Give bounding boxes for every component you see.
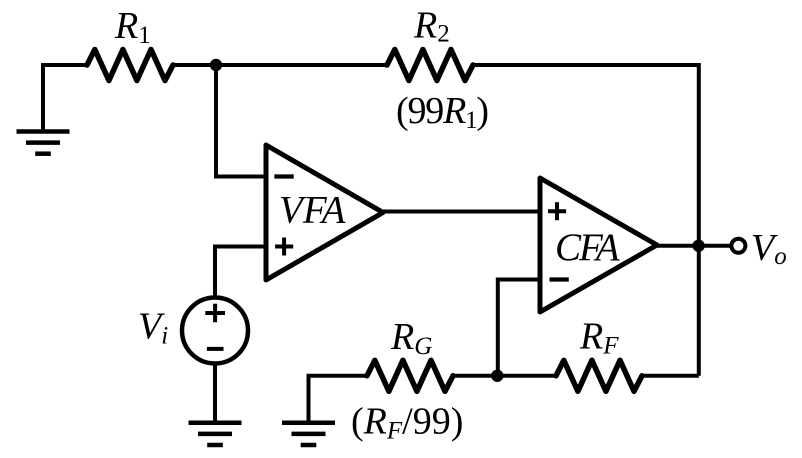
svg-text:Vi: Vi xyxy=(138,306,168,350)
op-amp U2 CFA triangle xyxy=(540,178,657,312)
wire top rail R1 to R2 xyxy=(173,63,387,67)
wire node A down to VFA inverting input xyxy=(216,65,266,177)
plus sign CFA non-inverting input xyxy=(548,202,566,220)
svg-text:(99R1): (99R1) xyxy=(396,90,488,134)
wire VFA output to CFA non-inverting input xyxy=(383,210,540,214)
resistor RF xyxy=(556,360,642,391)
ground GND2 under Vi xyxy=(189,423,242,445)
wire bottom-left to GND3 and to RG xyxy=(309,376,368,423)
wire R2 to right rail and right vertical rail xyxy=(473,65,699,376)
plus sign inside Vi xyxy=(205,304,225,323)
svg-text:RG: RG xyxy=(390,316,432,360)
wire VFA non-inverting input to Vi xyxy=(215,247,266,298)
svg-text:R2: R2 xyxy=(413,5,450,48)
ground GND1 top-left xyxy=(17,132,70,154)
source Vi circle xyxy=(182,298,248,364)
ground GND3 xyxy=(282,423,335,445)
minus sign VFA inverting input xyxy=(274,174,293,178)
node C output junction dot xyxy=(692,240,704,252)
wire RF to right rail xyxy=(642,374,699,378)
node B junction dot xyxy=(491,370,503,382)
wire RG to node B to RF xyxy=(453,374,556,378)
svg-text:RF: RF xyxy=(579,316,619,360)
svg-text:CFA: CFA xyxy=(555,226,620,269)
wire CFA output to terminal xyxy=(657,244,731,248)
minus sign CFA inverting input xyxy=(550,277,569,281)
wire CFA inverting input down to node B xyxy=(498,280,540,376)
svg-text:VFA: VFA xyxy=(279,189,346,232)
terminal Vo open circle xyxy=(731,239,745,253)
wire Vi to GND2 xyxy=(213,364,217,423)
wire left vertical to GND1 xyxy=(43,65,87,132)
resistor R2 xyxy=(387,50,473,81)
svg-text:Vo: Vo xyxy=(751,227,787,270)
svg-text:(RF/99): (RF/99) xyxy=(351,401,463,445)
resistor R1 xyxy=(87,50,173,81)
plus sign VFA non-inverting input xyxy=(275,238,293,256)
svg-text:R1: R1 xyxy=(114,5,151,49)
minus sign inside Vi xyxy=(207,347,224,351)
node A junction dot xyxy=(210,59,222,71)
op-amp U1 VFA triangle xyxy=(266,145,383,280)
resistor RG xyxy=(367,360,453,391)
